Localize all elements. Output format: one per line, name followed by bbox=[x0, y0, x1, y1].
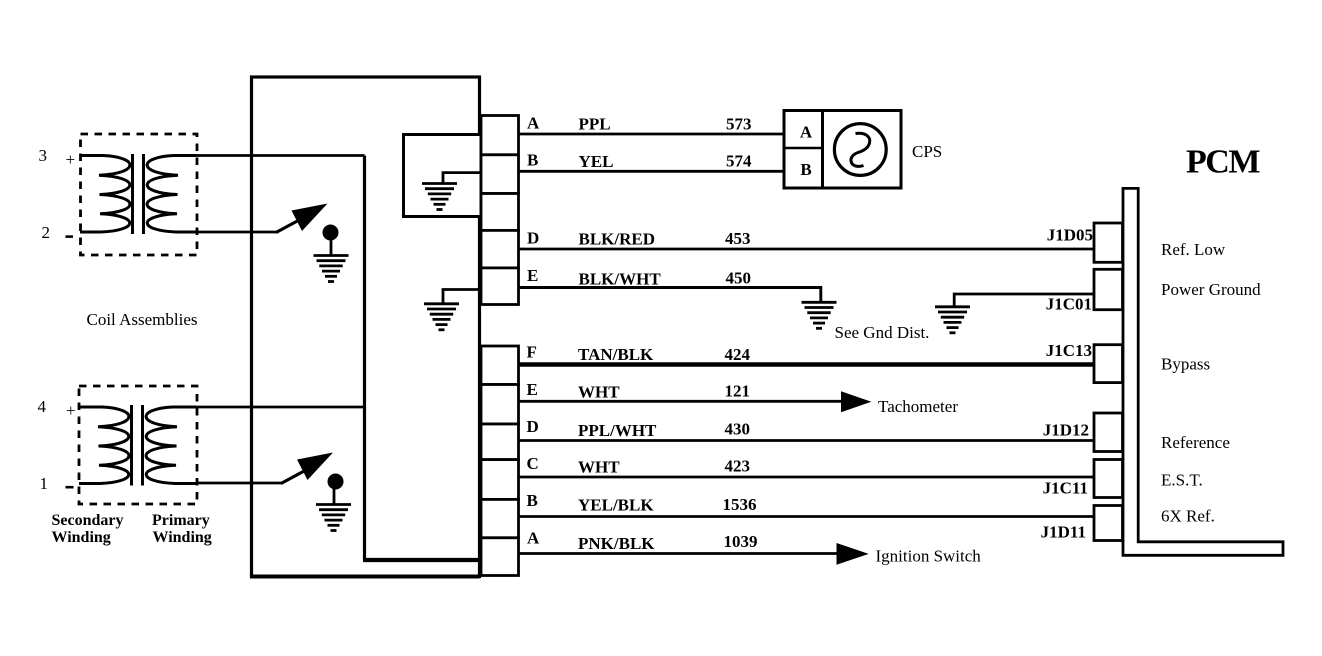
wire: internal ground to pin B bbox=[443, 173, 481, 184]
switch Q2 arrowhead bbox=[297, 453, 333, 481]
svg-text:B: B bbox=[800, 160, 811, 179]
PCM body outline bbox=[1123, 188, 1283, 555]
wire PNK/BLK 1039 bbox=[519, 552, 839, 555]
transformer T2 primary winding bbox=[146, 407, 196, 484]
svg-text:J1C13: J1C13 bbox=[1046, 341, 1092, 360]
svg-text:B: B bbox=[527, 491, 538, 510]
CPS connector shell bbox=[784, 111, 901, 189]
PCM connector J1C13 bbox=[1094, 345, 1123, 383]
svg-text:1: 1 bbox=[40, 474, 49, 493]
svg-text:E: E bbox=[527, 380, 538, 399]
svg-text:A: A bbox=[800, 122, 813, 141]
wire WHT 423 bbox=[519, 476, 1096, 479]
svg-text:2: 2 bbox=[42, 223, 51, 242]
ground G5 (wire 450) bbox=[802, 302, 837, 328]
terminal polarity - (T1) bbox=[66, 235, 74, 238]
CPS sensor S-curve bbox=[851, 133, 870, 166]
svg-text:Reference: Reference bbox=[1161, 433, 1230, 452]
svg-text:See Gnd Dist.: See Gnd Dist. bbox=[835, 323, 930, 342]
coil assembly T1 dashed enclosure bbox=[81, 134, 198, 255]
module connector pin E (lower group) bbox=[481, 385, 519, 425]
ignition module bottom edge (thick) bbox=[250, 575, 480, 579]
svg-text:6X Ref.: 6X Ref. bbox=[1161, 507, 1215, 526]
svg-text:+: + bbox=[66, 401, 76, 420]
svg-text:J1D11: J1D11 bbox=[1041, 523, 1086, 542]
svg-text:A: A bbox=[527, 528, 540, 547]
svg-text:WHT: WHT bbox=[578, 458, 620, 477]
PCM connector J1D05 bbox=[1094, 223, 1123, 262]
wire BLK/WHT 450 bbox=[519, 288, 821, 303]
svg-text:YEL/BLK: YEL/BLK bbox=[578, 496, 654, 515]
wire: Q2 dot to ground stem bbox=[333, 488, 336, 505]
svg-text:BLK/WHT: BLK/WHT bbox=[579, 270, 662, 289]
switch Q1 arrowhead bbox=[292, 204, 328, 232]
CPS sensor circle bbox=[834, 124, 886, 176]
svg-text:PPL/WHT: PPL/WHT bbox=[578, 421, 657, 440]
wire YEL 574 bbox=[519, 170, 785, 173]
transformer T1 core bbox=[131, 154, 134, 234]
arrowhead to ignition switch bbox=[837, 543, 869, 565]
svg-text:3: 3 bbox=[39, 146, 48, 165]
transformer T2 core bbox=[130, 405, 133, 486]
PCM connector J1D12 bbox=[1094, 413, 1123, 452]
svg-text:J1C11: J1C11 bbox=[1043, 479, 1088, 498]
svg-text:PPL: PPL bbox=[579, 115, 611, 134]
svg-text:J1D12: J1D12 bbox=[1043, 421, 1089, 440]
CPS pin divider vertical bbox=[821, 111, 824, 189]
module connector pin B (lower group) bbox=[481, 499, 519, 537]
wire PPL/WHT 430 bbox=[519, 439, 1096, 442]
ground G1 (inside box) bbox=[422, 184, 457, 210]
svg-text:1536: 1536 bbox=[723, 495, 757, 514]
wire: internal ignition feed bottom to pin A bbox=[363, 558, 481, 562]
module connector pin C (lower group) bbox=[481, 460, 519, 500]
svg-text:Winding: Winding bbox=[153, 529, 212, 546]
ground G2 (pin E internal) bbox=[424, 304, 459, 330]
svg-text:C: C bbox=[527, 454, 539, 473]
svg-text:YEL: YEL bbox=[579, 152, 614, 171]
wire: coil T2 terminal 4 feed into module bbox=[196, 406, 365, 409]
svg-text:E.S.T.: E.S.T. bbox=[1161, 471, 1203, 490]
svg-text:D: D bbox=[527, 229, 539, 248]
transformer T2 secondary winding bbox=[79, 407, 129, 484]
coil assembly T2 dashed enclosure bbox=[79, 386, 197, 504]
svg-text:Winding: Winding bbox=[52, 529, 111, 546]
svg-text:B: B bbox=[527, 150, 538, 169]
module connector pin A bbox=[481, 116, 519, 155]
svg-text:4: 4 bbox=[38, 397, 47, 416]
wire: coil T1 terminal 2 to driver switch bbox=[196, 231, 277, 234]
svg-text:TAN/BLK: TAN/BLK bbox=[578, 345, 654, 364]
module connector pin C (unused) bbox=[481, 194, 519, 231]
module connector pin B bbox=[481, 155, 519, 194]
svg-text:E: E bbox=[527, 266, 538, 285]
module connector pin A (lower group) bbox=[481, 538, 519, 576]
wire: internal ground to pin E bbox=[443, 290, 481, 305]
ignition module U1 outline bbox=[252, 77, 480, 577]
svg-text:Ignition Switch: Ignition Switch bbox=[876, 547, 982, 566]
svg-text:CPS: CPS bbox=[912, 142, 942, 161]
transformer T1 secondary winding bbox=[80, 156, 130, 233]
svg-text:+: + bbox=[66, 150, 76, 169]
switch Q2 contact dot bbox=[328, 474, 344, 490]
svg-text:453: 453 bbox=[725, 229, 751, 248]
wire YEL/BLK 1536 bbox=[519, 515, 1096, 518]
svg-text:Ref. Low: Ref. Low bbox=[1161, 240, 1226, 259]
module connector pin D bbox=[481, 230, 519, 268]
wire WHT 121 bbox=[519, 400, 843, 403]
ground G4 (under Q2) bbox=[316, 505, 351, 531]
svg-text:573: 573 bbox=[726, 115, 752, 134]
wire: Q1 dot to ground stem bbox=[330, 239, 333, 256]
svg-text:Secondary: Secondary bbox=[52, 512, 124, 529]
PCM connector J1C01 bbox=[1094, 269, 1123, 309]
wire: coil T2 terminal 1 to driver switch bbox=[196, 482, 282, 485]
wire: switch Q2 diagonal lead bbox=[281, 470, 306, 484]
svg-text:BLK/RED: BLK/RED bbox=[579, 230, 656, 249]
svg-text:Tachometer: Tachometer bbox=[878, 397, 958, 416]
switch Q1 contact dot bbox=[323, 225, 339, 241]
module connector pin E bbox=[481, 268, 519, 305]
wire BLK/RED 453 bbox=[519, 248, 1096, 251]
PCM connector J1C11 bbox=[1094, 460, 1123, 498]
wire PPL 573 bbox=[519, 133, 785, 136]
svg-text:D: D bbox=[527, 417, 539, 436]
wire TAN/BLK 424 (thick) bbox=[519, 362, 1096, 367]
CPS pin divider horizontal bbox=[784, 147, 823, 150]
module connector pin F (lower group) bbox=[481, 346, 519, 385]
module connector pin D (lower group) bbox=[481, 424, 519, 460]
svg-text:450: 450 bbox=[726, 269, 752, 288]
svg-text:430: 430 bbox=[725, 420, 751, 439]
svg-text:J1D05: J1D05 bbox=[1047, 226, 1093, 245]
svg-text:1039: 1039 bbox=[724, 532, 758, 551]
svg-text:PCM: PCM bbox=[1186, 144, 1260, 181]
ground G3 (under Q1) bbox=[314, 256, 349, 282]
svg-text:A: A bbox=[527, 114, 540, 133]
svg-text:F: F bbox=[527, 342, 537, 361]
wire: internal ignition feed vertical bbox=[363, 156, 366, 561]
terminal polarity - (T2) bbox=[66, 486, 74, 489]
internal ground box bbox=[404, 135, 482, 217]
svg-text:121: 121 bbox=[725, 382, 751, 401]
svg-text:Coil Assemblies: Coil Assemblies bbox=[87, 310, 198, 329]
svg-text:WHT: WHT bbox=[578, 383, 620, 402]
svg-text:Power Ground: Power Ground bbox=[1161, 280, 1261, 299]
ground G6 (power ground) bbox=[935, 307, 970, 333]
svg-text:Bypass: Bypass bbox=[1161, 355, 1210, 374]
svg-text:Primary: Primary bbox=[152, 512, 210, 529]
svg-text:423: 423 bbox=[725, 457, 751, 476]
svg-text:PNK/BLK: PNK/BLK bbox=[578, 534, 655, 553]
svg-text:424: 424 bbox=[725, 345, 751, 364]
svg-text:574: 574 bbox=[726, 152, 752, 171]
PCM connector J1D11 bbox=[1094, 506, 1123, 541]
arrowhead to tachometer bbox=[841, 391, 871, 412]
wire: coil T1 terminal 3 feed into module bbox=[196, 154, 365, 157]
transformer T1 primary winding bbox=[147, 156, 196, 233]
svg-text:J1C01: J1C01 bbox=[1046, 295, 1092, 314]
wire: power ground to J1C01 bbox=[954, 294, 1095, 307]
wire: switch Q1 diagonal lead bbox=[276, 219, 301, 233]
